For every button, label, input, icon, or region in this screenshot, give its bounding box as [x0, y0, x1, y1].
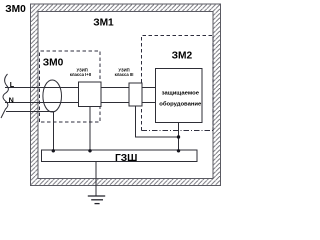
wall inner edge: [38, 12, 213, 179]
ground symbol: [88, 195, 105, 197]
SPD box УЗИП класса I+II: [79, 82, 102, 107]
cable sheath ellipse at wall entry: [43, 80, 62, 112]
wire PE (entry to sheath bottom): [6, 111, 53, 113]
svg-text:ГЗШ: ГЗШ: [115, 153, 137, 164]
wire L (УЗИП1 to УЗИП2): [101, 87, 129, 89]
earthing wire from cable sheath to bus: [52, 112, 54, 150]
protected equipment box: [156, 69, 203, 123]
svg-text:ЗМ1: ЗМ1: [93, 18, 114, 29]
zone ЗМ2 bottom dash-dot edge: [142, 130, 214, 132]
earthing wire from УЗИП1 to bus: [89, 107, 91, 151]
wall outer edge: [31, 4, 221, 186]
building wall (hatched frame, zone boundary): [31, 4, 221, 186]
zone ЗМ0 dashed box (around cable entry): [40, 51, 101, 122]
earthing wire from equipment to bus: [178, 123, 180, 151]
svg-text:ЗМ0: ЗМ0: [5, 4, 26, 15]
svg-text:ЗМ0: ЗМ0: [43, 57, 64, 68]
zone ЗМ2 dashed box: [142, 36, 214, 131]
wire N (УЗИП2 to equipment): [142, 102, 156, 104]
svg-text:N: N: [9, 96, 14, 105]
svg-text:защищаемое: защищаемое: [162, 91, 200, 97]
cable break squiggle (incoming line): [1, 74, 8, 118]
junction dot (УЗИП2 + equipment earth): [177, 135, 180, 138]
svg-text:L: L: [10, 80, 15, 89]
SPD box УЗИП класса III: [129, 83, 142, 106]
wire L (УЗИП2 to equipment): [142, 87, 156, 89]
svg-text:оборудование: оборудование: [159, 101, 202, 108]
wire N (entry to УЗИП1): [5, 102, 79, 104]
svg-text:класса III: класса III: [115, 72, 134, 77]
wire N (УЗИП1 to УЗИП2): [101, 102, 129, 104]
junction dot on bus (equipment): [177, 149, 180, 152]
junction dot on bus (УЗИП1): [88, 149, 91, 152]
earthing conductor from bus to earth electrode: [95, 162, 97, 197]
wire L (entry to УЗИП1): [5, 87, 79, 89]
main earthing busbar ГЗШ: [42, 150, 198, 162]
earthing wire from УЗИП2 (down, then right): [136, 106, 179, 137]
junction dot on bus (sheath): [52, 149, 55, 152]
svg-text:ЗМ2: ЗМ2: [172, 51, 193, 62]
svg-text:класса I+II: класса I+II: [70, 72, 91, 77]
